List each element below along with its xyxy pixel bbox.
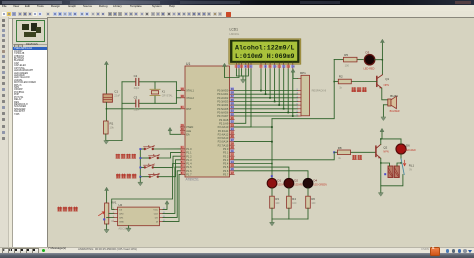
- wire R8 row: [334, 151, 337, 153]
- svg-text:P1.1: P1.1: [186, 151, 192, 155]
- led D2: [284, 178, 305, 188]
- svg-text:P3.5: P3.5: [223, 165, 229, 169]
- svg-text:P2.1/A9: P2.1/A9: [219, 121, 229, 125]
- svg-text:D1: D1: [277, 179, 281, 183]
- lcd LCD1 label: [230, 27, 240, 36]
- label threshold2 chinese: [116, 174, 136, 179]
- led D3: [364, 51, 375, 71]
- svg-text:RP1: RP1: [300, 71, 306, 75]
- wire driver column down to D1: [271, 119, 273, 179]
- svg-text:X1: X1: [162, 89, 166, 93]
- svg-text:RESPACK-8: RESPACK-8: [312, 89, 327, 93]
- wire U2 CLK to P1.5: [163, 167, 180, 213]
- label buzzer chinese: [352, 87, 367, 92]
- svg-text:LED-RED: LED-RED: [364, 68, 375, 71]
- svg-text:P2.4/A12: P2.4/A12: [218, 132, 229, 136]
- svg-text:P3.7: P3.7: [223, 173, 229, 177]
- wire xtal bottom rail: [122, 102, 135, 104]
- wire brake feed from P3.3: [234, 152, 334, 160]
- wire button K1 to rail and P1.0: [139, 148, 180, 150]
- capacitor C1: [103, 90, 121, 103]
- wire U2 CS to P1.4: [112, 164, 181, 210]
- svg-text:LCD1: LCD1: [230, 27, 239, 31]
- svg-text:LM016L: LM016L: [230, 32, 240, 36]
- node brake junction: [333, 151, 335, 153]
- power vcc arrow relay rail: [380, 128, 384, 131]
- svg-text:R8: R8: [338, 146, 342, 150]
- crystal X1: [150, 89, 173, 97]
- resistor R4: [287, 196, 297, 208]
- svg-text:P2.6/A14: P2.6/A14: [218, 140, 229, 144]
- svg-text:P2.5/A13: P2.5/A13: [218, 136, 229, 140]
- relay RL1 contact: [401, 159, 414, 175]
- svg-text:RST: RST: [186, 107, 192, 111]
- button K1: [144, 145, 155, 150]
- respack pin stubs: [296, 79, 301, 117]
- wire RST net: [106, 108, 180, 110]
- wire lcd vss/vee/rw to ground: [236, 69, 243, 76]
- wire lcd data bus staircase: [260, 69, 294, 117]
- wire C1 to R1: [105, 103, 107, 122]
- wire lcd E to P2.1: [234, 69, 251, 127]
- bottom taskbar strip: [0, 253, 474, 258]
- svg-text:D2: D2: [294, 179, 298, 183]
- wire R2 row / base: [334, 81, 338, 83]
- power vcc arrow pot: [105, 187, 109, 190]
- svg-text:D3: D3: [366, 51, 370, 55]
- wire U2 gnd: [128, 226, 130, 229]
- svg-text:R6: R6: [311, 197, 315, 201]
- ground led row: [270, 222, 275, 226]
- wire P0 rows to respack: [234, 91, 298, 117]
- buzzer BUZ1: [388, 94, 400, 113]
- svg-text:10k: 10k: [110, 126, 115, 130]
- svg-text:30pF: 30pF: [134, 109, 140, 112]
- svg-text:1k: 1k: [338, 157, 341, 160]
- wire left cap rail down: [121, 82, 123, 141]
- devices list: [12, 48, 49, 247]
- wire P0.7 branch to driver column: [272, 60, 334, 119]
- wire xtal right vertical to XTAL pins: [175, 82, 177, 104]
- svg-text:100: 100: [345, 63, 350, 67]
- svg-text:P1.7: P1.7: [186, 173, 192, 177]
- svg-text:P2.3/A11: P2.3/A11: [218, 129, 229, 133]
- wire P2.2 loop to column: [234, 126, 272, 128]
- ground reset: [104, 141, 109, 145]
- svg-text:P1.2: P1.2: [186, 154, 192, 158]
- wire rail to ground buttons: [139, 178, 141, 183]
- svg-text:R3: R3: [275, 197, 279, 201]
- svg-text:C1: C1: [114, 90, 118, 94]
- wire pot to ground: [106, 224, 108, 229]
- svg-text:P3.4: P3.4: [223, 162, 229, 166]
- transistor Q2: [376, 144, 389, 158]
- svg-text:11: 11: [278, 66, 281, 68]
- wire rail to ground leds: [271, 219, 273, 222]
- wire leds to resistors: [272, 188, 308, 196]
- led D1: [267, 178, 288, 188]
- svg-text:RL1: RL1: [409, 163, 415, 167]
- status bar: [0, 247, 474, 254]
- svg-text:P3.1: P3.1: [223, 151, 229, 155]
- message indicator: [42, 249, 45, 252]
- svg-text:CS: CS: [119, 209, 123, 211]
- svg-text:XTAL2: XTAL2: [186, 96, 194, 100]
- svg-text:P3.3: P3.3: [223, 158, 229, 162]
- svg-text:D6: D6: [406, 144, 410, 148]
- svg-text:C3: C3: [134, 96, 138, 100]
- resistor R6: [306, 196, 316, 208]
- svg-text:P3.0: P3.0: [223, 147, 229, 151]
- toolbar icons: [2, 12, 6, 17]
- power vcc arrow EA pin: [168, 127, 172, 130]
- svg-text:ALE: ALE: [186, 129, 191, 133]
- toolbar: [0, 11, 474, 19]
- svg-text:P0.4/AD4: P0.4/AD4: [217, 103, 229, 107]
- wire U2 DI to P1.7: [163, 174, 180, 221]
- svg-text:P2.0/A8: P2.0/A8: [219, 118, 229, 122]
- svg-text:EA: EA: [186, 132, 190, 136]
- ground pot: [104, 229, 109, 233]
- svg-text:100: 100: [311, 202, 316, 205]
- svg-text:1k: 1k: [339, 85, 342, 89]
- led D4: [303, 178, 327, 188]
- svg-text:P0.7/AD7: P0.7/AD7: [217, 114, 229, 118]
- svg-text:R4: R4: [292, 197, 296, 201]
- wire R5 row: [334, 59, 343, 61]
- svg-text:NPN: NPN: [384, 84, 389, 87]
- wire relay coil leads: [381, 163, 390, 166]
- svg-text:P0.5/AD5: P0.5/AD5: [217, 107, 229, 111]
- svg-text:30pF: 30pF: [134, 87, 140, 90]
- U1 left pin stubs and numbers: [180, 87, 194, 176]
- label alcohol detect chinese: [57, 207, 77, 212]
- button K2: [149, 154, 160, 159]
- svg-text:DO: DO: [155, 217, 159, 219]
- resistor R1: [104, 121, 115, 134]
- adc U2 ADC0832 body: [118, 203, 160, 230]
- wire button K3 to rail and P1.2: [139, 156, 180, 168]
- svg-text:14: 14: [292, 66, 295, 68]
- resistor R8: [338, 146, 351, 160]
- potentiometer RV1: [99, 200, 117, 224]
- node above D1: [271, 175, 273, 177]
- wire crystal stubs: [154, 82, 156, 90]
- svg-text:10: 10: [274, 66, 277, 68]
- wire D3 to collector column: [375, 59, 383, 61]
- svg-text:13: 13: [287, 66, 290, 68]
- object selector header P L DEVICES: [12, 44, 49, 50]
- svg-text:LED-GREEN: LED-GREEN: [313, 185, 327, 187]
- window title bar: [0, 0, 474, 5]
- svg-text:L:010m9 H:069m9: L:010m9 H:069m9: [235, 53, 295, 60]
- node pot tap: [103, 218, 105, 220]
- ground relay: [379, 193, 384, 197]
- button K3: [144, 164, 155, 169]
- wire resistor bottoms to rail: [272, 208, 308, 219]
- ground buzzer: [381, 117, 386, 121]
- svg-text:D4: D4: [313, 179, 317, 183]
- svg-text:LED-RED: LED-RED: [405, 149, 416, 152]
- svg-text:R2: R2: [339, 75, 343, 79]
- wire Q1 emitter to buzzer: [382, 88, 388, 100]
- svg-text:P0.0/AD0: P0.0/AD0: [217, 89, 229, 93]
- svg-text:CH0: CH0: [119, 213, 124, 215]
- wire xtal top rail: [122, 81, 135, 83]
- mcu U1 AT89C51 body: [185, 62, 230, 182]
- svg-text:BUZZER: BUZZER: [390, 110, 400, 113]
- svg-text:Q2: Q2: [383, 146, 387, 150]
- svg-text:5V: 5V: [409, 168, 412, 171]
- wire pot wiper to U2: [109, 212, 114, 214]
- svg-text:AT89C51: AT89C51: [186, 178, 199, 182]
- svg-text:22uF: 22uF: [114, 94, 120, 98]
- resistor R5: [344, 53, 358, 68]
- svg-text:R1: R1: [110, 122, 114, 126]
- wire button common rail: [139, 149, 141, 178]
- svg-text:CLK: CLK: [154, 213, 159, 215]
- svg-text:P2.2/A10: P2.2/A10: [218, 125, 229, 129]
- wire led feeds from P3.4-P3.6: [234, 163, 308, 179]
- svg-text:P1.0: P1.0: [186, 147, 192, 151]
- svg-text:R5: R5: [344, 53, 348, 57]
- svg-text:GND: GND: [119, 221, 124, 223]
- svg-text:CRYSTAL: CRYSTAL: [162, 94, 173, 97]
- power vcc arrow lcd vdd: [223, 63, 227, 66]
- power vcc arrow reset: [105, 61, 109, 64]
- power vcc arrow respack common: [291, 69, 295, 72]
- svg-text:P1.5: P1.5: [186, 165, 192, 169]
- relay RL1 coil: [388, 166, 399, 178]
- capacitor C3: [134, 96, 140, 112]
- svg-text:Alcohol:122m9/L: Alcohol:122m9/L: [235, 44, 295, 51]
- svg-text:Q1: Q1: [385, 77, 389, 81]
- ground lcd: [241, 80, 246, 84]
- U1 right pin stubs and numbers: [217, 87, 234, 176]
- svg-text:BUZ1: BUZ1: [390, 94, 398, 98]
- resistor R3: [270, 196, 280, 208]
- label threshold1 chinese: [116, 154, 136, 159]
- svg-text:P3.6: P3.6: [223, 169, 229, 173]
- wire P2.6 loop to column: [234, 141, 272, 143]
- power vcc arrow U2: [165, 201, 169, 204]
- part preview pane: [12, 18, 49, 45]
- svg-text:P0.2/AD2: P0.2/AD2: [217, 96, 229, 100]
- wire Q2 emitter to bottom rail: [381, 158, 403, 186]
- svg-text:P1.6: P1.6: [186, 169, 192, 173]
- svg-text:12: 12: [283, 66, 286, 68]
- menu bar: [0, 5, 474, 12]
- svg-text:P0.1/AD1: P0.1/AD1: [217, 92, 229, 96]
- button K4: [149, 173, 160, 178]
- wire rail to ground: [380, 186, 382, 193]
- svg-text:XTAL1: XTAL1: [186, 89, 194, 93]
- capacitor C2: [134, 74, 140, 90]
- svg-text:U2: U2: [118, 203, 122, 207]
- led D6: [396, 144, 416, 154]
- wire button K2 to rail and P1.1: [139, 153, 180, 159]
- svg-text:P0.6/AD6: P0.6/AD6: [217, 111, 229, 115]
- svg-text:C2: C2: [134, 74, 138, 78]
- svg-text:CH1: CH1: [119, 217, 124, 219]
- wire U2 DO to P1.6: [163, 171, 180, 218]
- respack RP1 body: [300, 71, 327, 116]
- resistor R2: [338, 75, 351, 90]
- svg-text:NPN: NPN: [383, 150, 388, 153]
- svg-text:PSEN: PSEN: [186, 125, 193, 129]
- node coil junction: [384, 173, 386, 175]
- wire Q2 collector: [380, 139, 382, 144]
- transistor Q1: [377, 75, 390, 89]
- wire D6 top/bottom: [400, 139, 402, 144]
- lcd LM016L body: [229, 39, 301, 64]
- svg-text:100: 100: [292, 202, 297, 205]
- power vcc arrow buzzer rail: [381, 39, 385, 42]
- wire lcd RS to P2.0: [234, 69, 246, 123]
- svg-text:100: 100: [275, 202, 280, 205]
- wire button K4 to rail and P1.3: [139, 160, 180, 178]
- svg-text:P3.2: P3.2: [223, 154, 229, 158]
- svg-text:P2.7/A15: P2.7/A15: [218, 143, 229, 147]
- U2 pin stubs: [113, 208, 166, 222]
- lcd pin stubs and numbers: [235, 61, 296, 69]
- svg-text:P0.3/AD3: P0.3/AD3: [217, 100, 229, 104]
- svg-text:P1.4: P1.4: [186, 162, 192, 166]
- animation control buttons: [2, 248, 9, 255]
- ground U2: [126, 228, 131, 232]
- svg-text:P1.3: P1.3: [186, 158, 192, 162]
- label brake chinese: [352, 155, 362, 160]
- wire R1 to ground rail: [106, 134, 122, 141]
- watermark logo: [421, 248, 429, 251]
- svg-text:U1: U1: [186, 62, 190, 66]
- svg-text:VCC: VCC: [153, 209, 158, 211]
- left tool column: [0, 17, 9, 258]
- ground buttons: [138, 182, 143, 186]
